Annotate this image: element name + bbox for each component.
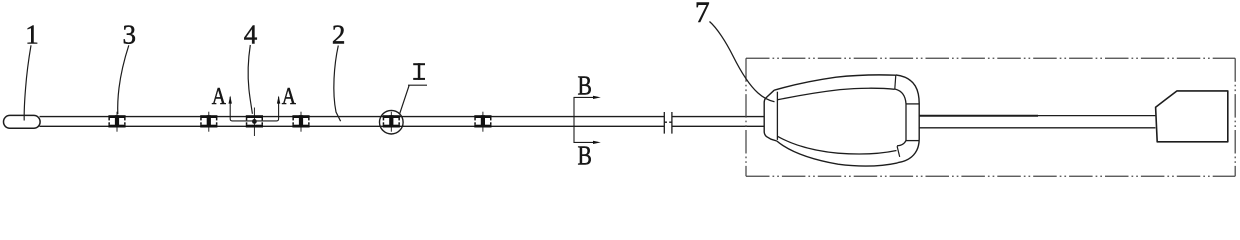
wire: shaft left segment lower line: [40, 125, 665, 127]
handle: right face top chord: [906, 103, 919, 105]
handle: inner top shoulder: [778, 88, 895, 100]
cable upper line thick overlay: [919, 115, 1038, 117]
connector paddle: [1156, 91, 1228, 142]
wire: shaft right segment upper line: [672, 116, 764, 118]
handle: inner bottom arc: [897, 141, 906, 146]
svg-text:B: B: [577, 141, 591, 171]
wire: shaft right segment lower line: [672, 125, 764, 127]
svg-text:B: B: [577, 71, 591, 101]
cable upper line: [919, 115, 1155, 117]
marker band M3 with center dot (under label 4): [246, 108, 263, 137]
handle: inner bottom shoulder: [778, 136, 897, 154]
svg-text:A: A: [282, 82, 296, 109]
handle: outer bottom edge: [777, 141, 898, 166]
marker band M2: [200, 112, 217, 132]
svg-text:A: A: [212, 82, 226, 109]
break mark left: [664, 112, 667, 134]
marker band M4: [292, 112, 309, 132]
svg-text:7: 7: [695, 0, 710, 29]
tip electrode (capsule): [4, 115, 41, 128]
wire: shaft left segment upper line: [40, 116, 665, 118]
svg-text:3: 3: [123, 20, 137, 50]
svg-text:1: 1: [25, 20, 39, 50]
arrowhead A left: [229, 96, 232, 104]
handle: outer top edge: [774, 75, 896, 90]
marker band M5 (inside detail circle I): [383, 112, 400, 132]
detail circle I: [380, 110, 404, 134]
svg-text:4: 4: [244, 20, 258, 50]
marker band M1 (under label 3): [108, 112, 125, 132]
label I: [413, 63, 425, 80]
leader line 1: [24, 45, 31, 120]
handle: bottom seam: [897, 146, 900, 157]
arrowhead B top: [593, 96, 601, 99]
svg-text:2: 2: [332, 20, 346, 50]
leader line to label I: [400, 85, 427, 114]
section line A-A: [230, 97, 278, 121]
break mark right: [669, 112, 672, 134]
leader line 4: [248, 45, 252, 114]
section line B-B: [574, 97, 598, 142]
handle: left cap seam: [776, 92, 778, 140]
handle: inner top-right arc: [895, 89, 906, 104]
handle: top seam: [895, 75, 896, 89]
leader line 7: [710, 22, 775, 102]
leader line 2: [334, 46, 341, 122]
marker band M6: [474, 112, 491, 132]
dashed enclosure box (7): [746, 58, 1235, 176]
arrowhead A right: [277, 96, 280, 104]
handle: outer top-right corner and right edge: [896, 75, 919, 163]
arrowhead B bottom: [593, 141, 601, 144]
leader line 3: [118, 45, 129, 114]
handle: right face bottom chord: [906, 140, 919, 142]
handle: left cap outline: [764, 90, 777, 141]
cable lower line: [919, 127, 1155, 129]
handle: right face inner vertical: [905, 104, 907, 141]
